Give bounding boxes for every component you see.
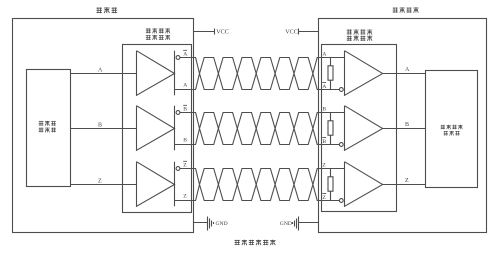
svg-text:B: B: [183, 137, 187, 143]
inverter bubble on /B output: [176, 111, 180, 115]
label: long-line drive receive device (2 lines): [347, 29, 372, 40]
svg-text:B: B: [183, 107, 187, 113]
inverter bubble on /A output: [176, 56, 180, 60]
twisted pair cable B//B wire 1: [196, 113, 319, 145]
label: receiver main circuit (2 lines): [441, 125, 463, 136]
receiver outer box: [319, 19, 487, 233]
twisted pair cable A//A wire 2: [196, 58, 319, 90]
twisted pair cable A//A wire 1: [196, 58, 319, 90]
label: encoder main circuit (2 lines): [39, 121, 56, 132]
svg-text:A: A: [183, 52, 187, 58]
encoder main-circuit box: [27, 70, 71, 187]
svg-text:VCC: VCC: [285, 29, 298, 36]
wire Z receiver output: [383, 184, 426, 186]
termination resistor R1: [330, 58, 332, 90]
svg-text:Z: Z: [322, 195, 326, 201]
driver output bar node Z: [174, 162, 176, 207]
driver output bar node A: [174, 51, 176, 96]
ground symbol left: [194, 217, 214, 231]
svg-text:GND: GND: [280, 221, 292, 227]
svg-text:B: B: [98, 123, 102, 129]
svg-text:Z: Z: [322, 163, 326, 169]
wire /Z receiver bottom input: [319, 200, 340, 202]
wire Z encoder to driver: [71, 184, 137, 186]
inverter bubble on receiver /B input: [339, 143, 343, 147]
svg-text:B: B: [322, 139, 326, 145]
ground symbol right: [293, 217, 319, 231]
line-driver output device box U1: [123, 45, 192, 213]
svg-text:Z: Z: [405, 178, 409, 184]
wire /B receiver bottom input: [319, 144, 340, 146]
inverter bubble on /Z output: [176, 167, 180, 171]
receiver buffer Z (op-amp triangle): [345, 162, 383, 207]
wire A encoder to driver: [71, 73, 137, 75]
wire A receiver top input: [319, 57, 345, 59]
wire B driver bottom output: [175, 144, 197, 146]
twisted pair cable B//B wire 2: [196, 113, 319, 145]
wire /Z driver top output: [180, 168, 196, 170]
title: receiving equipment (jie-shou-she-bei): [393, 7, 419, 12]
inverter bubble on receiver /A input: [339, 88, 343, 92]
line-driver receiver device box U2: [322, 45, 397, 212]
caption: long-line drive output: [235, 240, 276, 246]
svg-text:Z: Z: [183, 163, 187, 169]
wire A receiver output: [383, 73, 426, 75]
inverter bubble on receiver /Z input: [339, 199, 343, 203]
wire B encoder to driver: [71, 128, 137, 130]
label: long-line drive output device (2 lines): [146, 28, 170, 40]
wire /B driver top output: [180, 112, 196, 114]
svg-text:A: A: [405, 67, 410, 73]
wire B receiver output: [383, 128, 426, 130]
wire B receiver top input: [319, 112, 345, 114]
wire Z receiver top input: [319, 168, 345, 170]
wire Z driver bottom output: [175, 200, 197, 202]
svg-text:A: A: [98, 68, 103, 74]
wire A driver bottom output: [175, 89, 197, 91]
twisted pair cable Z//Z wire 2: [196, 169, 319, 201]
svg-text:VCC: VCC: [216, 29, 229, 36]
svg-text:Z: Z: [98, 179, 102, 185]
svg-text:B: B: [405, 122, 409, 128]
svg-text:GND: GND: [216, 221, 228, 227]
svg-text:Z: Z: [183, 193, 187, 199]
driver buffer Z (op-amp triangle): [137, 162, 175, 207]
VCC terminal right: [299, 29, 319, 35]
twisted pair cable Z//Z wire 1: [196, 169, 319, 201]
receiver main-circuit box: [426, 71, 478, 188]
svg-text:A: A: [322, 84, 326, 90]
svg-text:A: A: [322, 52, 326, 58]
wire /A driver top output: [180, 57, 196, 59]
termination resistor R3: [330, 169, 332, 201]
svg-text:A: A: [183, 82, 187, 88]
driver buffer A (op-amp triangle): [137, 51, 175, 96]
termination resistor R2: [330, 113, 332, 145]
driver output bar node B: [174, 106, 176, 151]
receiver buffer A (op-amp triangle): [345, 51, 383, 96]
driver buffer B (op-amp triangle): [137, 106, 175, 151]
wire /A receiver bottom input: [319, 89, 340, 91]
VCC terminal left: [194, 29, 215, 35]
receiver buffer B (op-amp triangle): [345, 106, 383, 151]
encoder outer box: [13, 19, 194, 233]
title: encoder (bian-ma-qi): [96, 7, 117, 13]
svg-text:B: B: [322, 107, 326, 113]
